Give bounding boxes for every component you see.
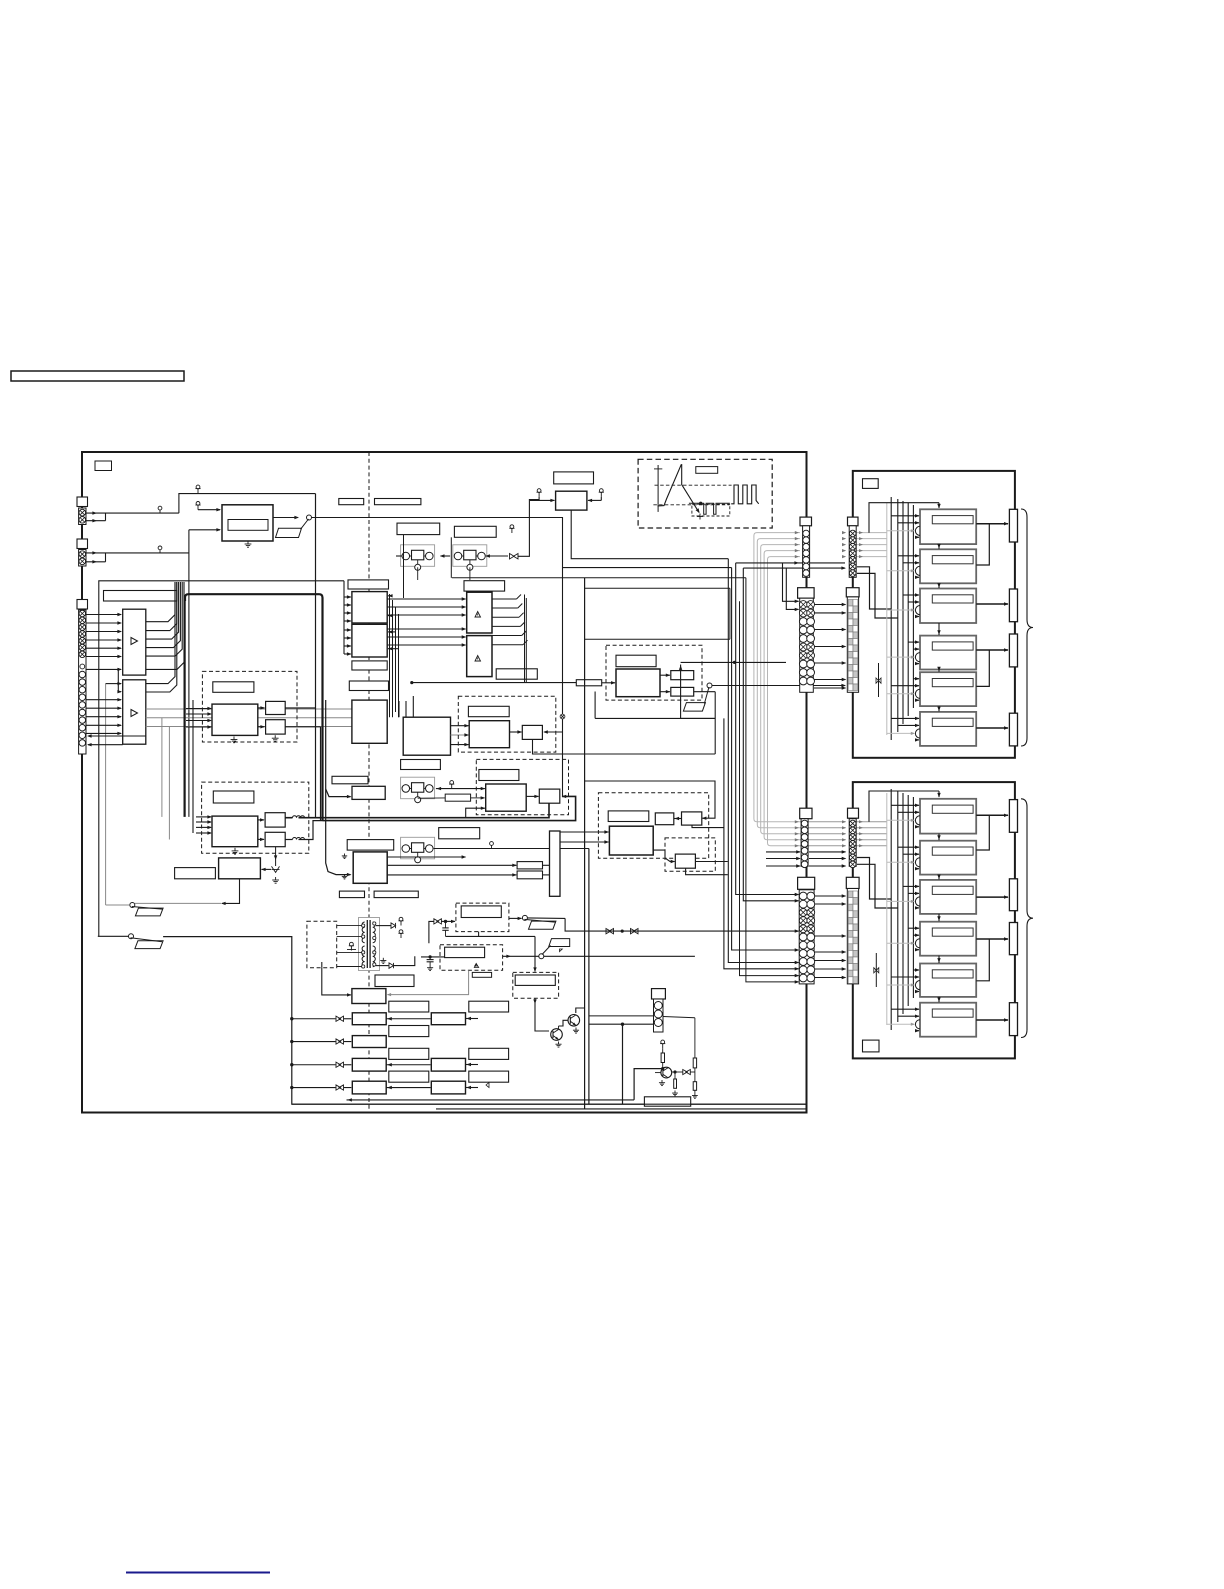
power tap T202 [600, 492, 602, 497]
wires M105 outputs [258, 819, 264, 821]
switch SW402 [539, 954, 544, 959]
wire G203-W2 [436, 788, 485, 790]
label box P3 [445, 947, 485, 957]
wire left frame [99, 581, 344, 937]
driver U201 [467, 592, 492, 633]
wire SW402 line [503, 955, 539, 957]
block M102 [212, 704, 258, 735]
wire stair A1 [857, 567, 891, 609]
switch SW101 [307, 515, 312, 520]
ground M407a [344, 854, 346, 856]
block M105 [212, 816, 258, 847]
block M106 [265, 813, 285, 827]
wires U102 inputs [106, 683, 121, 685]
bus trunk left [184, 598, 186, 817]
dashed group P3 [440, 945, 503, 971]
connector CN207 body [799, 890, 814, 984]
wire entry sub-board B [869, 791, 939, 822]
filter X203 [875, 953, 877, 987]
dashed group D301 [606, 645, 702, 700]
block M305 [671, 671, 694, 680]
label box N3 [389, 1048, 429, 1059]
connector CN203 pins [799, 601, 807, 609]
wire M404 out [695, 861, 727, 863]
diode D403 [376, 965, 389, 967]
resistor R301 (inline box) [576, 680, 601, 686]
wire SW103 out [163, 937, 806, 1105]
wire X201 up [518, 500, 540, 557]
block M201 [556, 491, 587, 510]
wires U101 fan-out [146, 582, 175, 622]
wire B1-J5 [976, 814, 1008, 816]
power tap T102 [197, 505, 199, 510]
label box W2 [479, 770, 519, 781]
PLL group G203 [401, 777, 435, 799]
block M108 [219, 858, 261, 879]
connector CN204 body [847, 597, 858, 692]
edge connector J4 [1009, 713, 1017, 746]
wires M102 outputs [258, 707, 265, 709]
resistor R402 (inline) [517, 871, 542, 879]
connector CN207 pins [799, 892, 807, 900]
bus feeder gray B [886, 793, 888, 1025]
wire M108 down [222, 879, 240, 904]
connector CN208 body [847, 889, 858, 984]
bus M301 column [389, 594, 391, 717]
marker P3 [474, 964, 478, 967]
wire B3-J6 [976, 896, 1008, 898]
transformer T401 primary [362, 922, 365, 943]
label box P2 [472, 972, 491, 977]
dashed group Q [513, 972, 559, 998]
block M302 [352, 624, 387, 657]
block M104 [266, 720, 286, 734]
zener D201 [275, 847, 277, 866]
switch SW102 [130, 903, 135, 908]
bus feeders sub-board A [890, 497, 892, 740]
amplifier block B3 [920, 880, 976, 914]
label box pair E [339, 891, 364, 898]
connector CN103 pins [79, 671, 86, 678]
test point TP102 [159, 550, 161, 553]
wire A4-J3 [976, 649, 1008, 651]
transistor Q401 [551, 1029, 563, 1041]
edge connector J6 [1009, 879, 1017, 911]
wire T401 out [394, 956, 415, 965]
connector CN207 cap [798, 877, 815, 889]
wire B1 to B2 [938, 834, 940, 841]
wire board bottom inner [292, 1103, 806, 1105]
block M421 [431, 1058, 465, 1071]
wire SW103 common [98, 935, 129, 937]
wire A3 to A4 [938, 623, 940, 635]
amplifier block B5 [920, 964, 976, 997]
label box N4 [389, 1071, 429, 1082]
wire D401 stub [321, 962, 323, 968]
bus riser C branch [326, 789, 351, 797]
buffer U101 symbol [131, 638, 138, 645]
wire SW301 out [712, 685, 845, 687]
label box W1 [468, 706, 509, 716]
sub-board B outline [853, 782, 1015, 1058]
connector CN205 cap [800, 808, 812, 819]
wire M201 bottom [571, 510, 728, 559]
waveform axes [657, 465, 659, 512]
label box L102 (wide) [104, 591, 178, 602]
wire vertical feed [188, 530, 190, 817]
label box P [461, 906, 501, 918]
wire bottom elbow [634, 1069, 661, 1100]
connector CN301 body [654, 999, 664, 1032]
block M412 with filter [352, 1058, 386, 1071]
bus drop 2 [728, 559, 798, 963]
connector CN203 cap [798, 588, 815, 599]
wires D102 inputs [196, 816, 211, 818]
wire M312 down [533, 739, 716, 754]
PLL group G202 [453, 545, 487, 567]
wire M101 out [273, 517, 298, 519]
amplifier block A1 [920, 509, 976, 544]
label box E0 [439, 828, 480, 839]
wire stair A2 [857, 573, 898, 618]
test point TP101 [159, 510, 161, 513]
marker SW402 [560, 949, 563, 952]
wire B5 to B6 [938, 997, 940, 1002]
block M404 [675, 854, 695, 868]
connector CN208 cap [846, 877, 859, 888]
buffer U102 [123, 680, 146, 744]
label box Q [515, 975, 555, 985]
wire stair B2 [857, 864, 898, 908]
dashed group E3 [665, 838, 715, 871]
wire A3-J2 [976, 603, 1008, 605]
wires D401 to T401 [337, 925, 365, 927]
connector CN301 pins [654, 1002, 662, 1010]
wire Q401-Q402 [559, 1020, 569, 1026]
label box M406 [332, 776, 368, 784]
label box D101 [213, 682, 254, 693]
block M411 with filter [352, 1036, 386, 1048]
wires into M301/M302 right [388, 595, 390, 597]
edge connector J3 [1009, 634, 1017, 667]
wire G202-G201 [441, 555, 451, 557]
wires D101 inputs [186, 708, 211, 710]
wire A5 join [976, 650, 989, 686]
block M107 [265, 832, 285, 846]
wire SW-line to CN207 [565, 918, 798, 931]
waveform label box [696, 467, 718, 474]
bus drop 1 [724, 718, 799, 968]
label box R cluster [644, 1097, 690, 1106]
block M410 with filter [352, 1013, 386, 1025]
connector CN208 contacts [848, 891, 853, 898]
wire to R402 [387, 874, 516, 876]
connector CN204 contacts [848, 600, 853, 607]
bus drop 4 [736, 563, 799, 895]
bus drop 6 [740, 601, 799, 975]
label box pair C [397, 523, 440, 535]
wires M301/M302 to U201 [387, 598, 465, 600]
amplifier block B1 [920, 799, 976, 834]
wires M310 to W1 [451, 725, 469, 727]
waveform inset frame (dashed) [638, 459, 772, 528]
connector CN205 pins [801, 820, 808, 827]
wires into CN205 [766, 851, 800, 853]
wire M401-M402 [674, 818, 682, 820]
wires M304 out [660, 674, 670, 676]
amplifier block B6 [920, 1003, 976, 1037]
buffer U102 symbol [131, 710, 138, 717]
block M101 inner label [228, 520, 268, 531]
block M408 [352, 989, 386, 1004]
bus drop 7 [746, 578, 799, 982]
wire y577 [452, 577, 746, 579]
wire T201-M201 [538, 497, 540, 500]
main board outline [82, 452, 807, 1113]
wire into M408 [322, 968, 351, 995]
block M306 [671, 687, 694, 696]
connector CN201 body [803, 526, 810, 578]
label box pair D [454, 526, 496, 537]
ground M102 [233, 737, 235, 740]
wire B4-J7 [976, 938, 1008, 940]
sub-board A outline [853, 471, 1015, 758]
edge connector J7 [1009, 923, 1017, 955]
wire T102 to M101 [198, 509, 220, 511]
wires M103/M104 outputs [285, 707, 315, 709]
driver U202 [467, 636, 492, 677]
label box M407 [347, 840, 394, 851]
wire pair top [736, 562, 845, 564]
ground T401 [382, 958, 384, 961]
dashed group D102 [202, 782, 309, 853]
wire SW101 output [312, 518, 563, 797]
bus drop 5 [743, 568, 798, 901]
sub-board A label box [863, 479, 879, 489]
wire B3 to B4 [938, 914, 940, 921]
label box U202b [496, 669, 537, 679]
wire into G202 [486, 555, 508, 557]
amplifier block B2 [920, 841, 976, 875]
block M407 [353, 852, 387, 883]
ground M105 [234, 848, 236, 851]
bus riser C [326, 700, 351, 875]
block M312 [522, 725, 542, 739]
wire gray riser [105, 684, 107, 905]
gray bus to connectors [754, 533, 800, 822]
wire stair B1 [857, 858, 891, 900]
wire M107 out [285, 839, 292, 841]
capacitor C401 [445, 921, 447, 928]
wire M313 foot [466, 808, 485, 818]
resistor R405 [693, 1058, 696, 1068]
stub G201 [417, 567, 419, 580]
label box T401 [375, 975, 414, 987]
block M101 [222, 505, 273, 541]
label box pair A [339, 499, 364, 505]
dashed group W2 [476, 759, 568, 814]
bus riser B [320, 727, 322, 821]
label box C301 [348, 580, 389, 589]
amplifier block A5 [920, 672, 976, 706]
label box pair B [375, 499, 421, 505]
test point TP401 [491, 845, 493, 848]
wires M310 feeds [398, 701, 400, 717]
wire to R401 [387, 864, 516, 866]
ground M104 [274, 735, 276, 738]
transistor Q402 [568, 1015, 580, 1027]
amplifier block A3 [920, 589, 976, 624]
connector CN204 cap [846, 588, 859, 597]
wire M306 out [694, 691, 716, 693]
wire Q down [535, 998, 549, 1031]
label box D301 [616, 655, 656, 667]
amplifier block B4 [920, 922, 976, 956]
connector CN101 cap [77, 497, 88, 507]
bus trunk top [185, 594, 323, 820]
connector CN103 keyed pins [79, 610, 86, 617]
dashed group W1 [458, 696, 556, 752]
wire B5 join [976, 939, 989, 981]
wire A2 join [976, 524, 989, 565]
wire CN102 outputs [86, 552, 106, 554]
diode D402 [376, 925, 391, 927]
PLL group G204 [401, 837, 435, 859]
bus fan U201/U202 [492, 598, 517, 600]
edge connector J1 [1009, 509, 1017, 542]
wires M301/M302 inputs [344, 596, 351, 598]
wire M304 in [602, 682, 615, 684]
connector CN203 body [800, 598, 814, 692]
label box C303 [349, 681, 388, 691]
label box M310 [401, 760, 441, 770]
brace sub-board B [1021, 799, 1033, 1038]
capacitor C402 [429, 957, 431, 960]
connector CN102 body [79, 550, 86, 567]
wire loop to M402 [585, 781, 715, 818]
resistor R406 (inline) [418, 797, 446, 799]
wire to power rail [179, 494, 316, 513]
waveform ramp trace [658, 465, 700, 513]
dashed group E1 [598, 793, 708, 858]
wire B4 to B5 [938, 956, 940, 963]
label box pair F [374, 891, 418, 898]
buffer U101 [123, 609, 146, 675]
connector CN301 cap [652, 989, 666, 999]
bus lower pair [323, 796, 576, 820]
wire D201 to M108 [262, 868, 272, 870]
wire into R301 [412, 682, 577, 684]
amplifier block A2 [920, 549, 976, 583]
wire M403 in2 [560, 841, 609, 843]
wire bottom run1 [347, 1099, 635, 1101]
wire bottom run2 [436, 1108, 806, 1110]
wire rail to CN301 [589, 1023, 654, 1025]
connector CN202 cap [848, 517, 859, 526]
wire A6-J4 [976, 727, 1008, 729]
wire SW102 common [106, 904, 130, 906]
power tap T101 [197, 489, 199, 494]
wire B6-J8 [976, 1019, 1008, 1021]
block M401 [655, 813, 674, 825]
wire T202-M201 [600, 497, 602, 501]
wire M404 down [686, 868, 728, 875]
marker P2 [475, 963, 478, 966]
connector CN206 body [849, 819, 856, 867]
filter X402 [683, 1070, 691, 1075]
wire A5 to A6 [938, 706, 940, 711]
warning mark U201 [475, 612, 481, 618]
waveform window (dashed) [692, 504, 730, 516]
label box M201 [554, 472, 594, 484]
resistor R403 [661, 1053, 664, 1063]
bus feeders sub-board B [890, 789, 892, 1030]
brace sub-board A [1021, 509, 1033, 746]
wires CN103 to U101 [86, 614, 121, 616]
wire P bottom [446, 935, 536, 937]
wire M313-M314 [526, 795, 538, 797]
block M311 [469, 721, 509, 748]
wire B2 to B3 [938, 875, 940, 880]
power tap T203 [451, 784, 453, 789]
block M303 [352, 700, 387, 743]
waveform step trace [689, 503, 730, 514]
connector CN103 cap [77, 600, 88, 610]
PLL group G201 [401, 545, 435, 567]
filter X202 [878, 663, 880, 697]
dashed group P [456, 903, 509, 932]
block M420 [431, 1013, 465, 1025]
connector CN101 pins [79, 509, 86, 516]
wire P to SW401 [509, 917, 522, 919]
label box C302 [352, 661, 387, 670]
label box N1 [389, 1001, 429, 1012]
wire y662 [681, 661, 786, 663]
wire stub G201d [403, 535, 405, 598]
connector CN202 body [849, 526, 856, 578]
wire M403 out [653, 850, 674, 861]
transformer T401 core [366, 920, 368, 968]
warning mark U202 [475, 656, 481, 662]
block M310 [403, 717, 450, 755]
wire A1 to A2 [938, 544, 940, 549]
wire A4 to A5 [938, 670, 940, 672]
label box N2 [389, 1026, 429, 1037]
edge connector J5 [1009, 800, 1017, 833]
wire M311-M312 [510, 731, 522, 733]
resistor R401 (inline) [517, 862, 542, 869]
block M301 [352, 592, 387, 623]
connector CN102 cap [77, 539, 88, 549]
wire y639 [585, 638, 730, 640]
bottom footer rule (navy) [126, 1572, 270, 1574]
connector CN206 pins [849, 820, 856, 827]
block M314 [539, 789, 560, 803]
waveform pulse trace [731, 485, 759, 504]
inductor L102 [293, 838, 305, 840]
sub-board B label box [863, 1040, 880, 1052]
bus drop 3 [732, 568, 799, 950]
wire into P [429, 921, 434, 943]
connector CN102 pins [79, 551, 86, 558]
wire A2 to A3 [938, 583, 940, 588]
wire P gray drop [388, 970, 469, 994]
wire M305 loop [681, 665, 716, 719]
wire M403 in1 [560, 831, 609, 833]
wire G204 out [434, 848, 589, 850]
wire Q402 up [576, 1008, 585, 1013]
wires feeders to blocks B [891, 804, 919, 806]
